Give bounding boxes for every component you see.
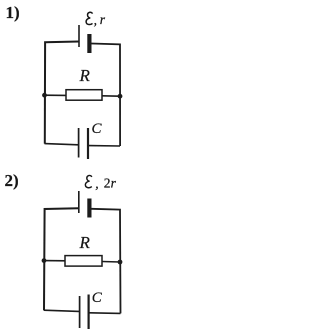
middle wire left circuit 2 <box>44 260 66 262</box>
battery thick plate circuit 2 <box>87 199 91 218</box>
svg-text:C: C <box>92 290 103 306</box>
bottom wire left circuit 1 <box>45 144 79 145</box>
capacitor right plate circuit 1 <box>87 128 89 159</box>
svg-text:C: C <box>92 121 103 137</box>
svg-text:1): 1) <box>6 3 20 22</box>
svg-text:2): 2) <box>5 171 19 190</box>
wire top-right circuit 2 <box>92 209 121 314</box>
wire top-left circuit 2 <box>44 208 79 310</box>
resistor R box circuit 1 <box>66 90 102 101</box>
label R circuit 1 <box>79 66 91 85</box>
middle wire right circuit 1 <box>102 95 120 97</box>
label C circuit 1 <box>92 121 103 137</box>
svg-text:R: R <box>79 233 91 252</box>
label C circuit 2 <box>92 290 103 306</box>
wire top-left circuit 1 <box>45 42 79 144</box>
battery thick plate (short) circuit 1 <box>87 34 91 53</box>
label 2) <box>5 171 19 190</box>
EMF label E,2r circuit 2 <box>85 175 116 191</box>
svg-text:2: 2 <box>104 175 111 190</box>
svg-text:,: , <box>94 12 97 27</box>
bottom wire right circuit 2 <box>90 312 121 315</box>
middle wire right circuit 2 <box>102 261 120 264</box>
EMF label E,r (script E drawn as path) <box>86 12 106 27</box>
svg-text:r: r <box>111 175 117 190</box>
svg-text:,: , <box>95 176 98 191</box>
bottom wire right circuit 1 <box>89 145 120 147</box>
svg-text:r: r <box>100 12 106 27</box>
capacitor left plate circuit 2 <box>79 296 81 328</box>
junction dot left circuit 2 <box>42 258 47 263</box>
wire top-right circuit 1 <box>92 44 121 147</box>
label 1) <box>6 3 20 22</box>
capacitor right plate circuit 2 <box>87 295 89 330</box>
resistor R box circuit 2 <box>65 256 102 267</box>
battery thin plate (long) circuit 1 <box>78 25 80 47</box>
label R circuit 2 <box>79 233 91 252</box>
junction dot right circuit 2 <box>118 260 123 265</box>
bottom wire left circuit 2 <box>44 310 79 311</box>
battery thin plate circuit 2 <box>78 191 80 213</box>
middle wire left circuit 1 <box>45 94 67 96</box>
junction dot left circuit 1 <box>42 93 47 98</box>
capacitor left plate circuit 1 <box>78 128 80 158</box>
junction dot right circuit 1 <box>118 94 123 99</box>
svg-text:R: R <box>79 66 91 85</box>
